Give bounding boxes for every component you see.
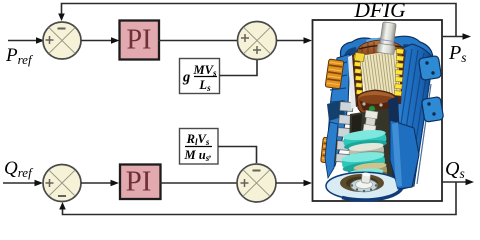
machine base plate <box>326 172 402 200</box>
svg-text:DFIG: DFIG <box>353 0 406 22</box>
machine base recess (dark) <box>340 174 384 192</box>
machine cut section white gap <box>348 53 361 109</box>
wire: S4 to DFIG <box>276 182 306 184</box>
machine lower shaft cone (white steps) <box>361 110 380 139</box>
wire: S3 to PI2 <box>81 182 113 184</box>
DFIG block frame <box>313 20 443 201</box>
machine right mount bracket lower <box>421 97 443 123</box>
wire: P_ref input <box>8 40 40 42</box>
wire: gain block to S4 top <box>218 147 257 164</box>
wire: S1 to PI1 <box>81 40 114 42</box>
gain block g·MVs/Ls <box>180 59 220 94</box>
DFIG machine cutaway picture <box>321 21 444 200</box>
wire: Q_ref input <box>3 182 38 184</box>
machine top end-bell (blue cap) <box>340 36 433 67</box>
machine inner cavity behind discs <box>348 108 396 184</box>
machine right casing fins <box>394 49 432 184</box>
machine yellow patch top-left <box>354 52 364 61</box>
PI controller (Q loop) <box>120 165 161 200</box>
machine left housing cut edge <box>327 54 350 170</box>
svg-text:PI: PI <box>126 166 152 198</box>
machine rotor bottom copper ring <box>357 90 396 117</box>
gain block Rl·Vs/(M·us) <box>180 129 219 165</box>
machine hub shaft end <box>361 172 371 183</box>
svg-text:g: g <box>182 70 190 86</box>
machine yellow slot wedges right column <box>394 49 403 96</box>
svg-text:PI: PI <box>127 24 152 55</box>
summing junction S3 (Q error) <box>43 165 81 202</box>
machine right housing (blue finned casing) <box>390 44 433 190</box>
machine right mount bracket upper <box>418 56 441 81</box>
wire: Ps output <box>442 36 465 38</box>
wire: bottom feedback from Qs output <box>63 182 457 215</box>
machine left lower casing edge <box>325 122 338 178</box>
machine slip-ring disc teal 2 <box>341 150 386 173</box>
machine spacer disc khaki <box>353 161 387 180</box>
machine rotor top copper end-winding <box>357 40 403 66</box>
machine bottom-right blue skirt <box>390 120 419 189</box>
PI controller (P loop) <box>120 21 160 60</box>
machine yellow slot wedges left column <box>354 55 363 102</box>
wire: S2 to DFIG <box>277 40 307 42</box>
summing junction S4 (subtracts) <box>237 164 276 202</box>
machine slip-ring disc teal 1 <box>343 128 388 151</box>
machine rotor bottom green dot <box>369 106 376 113</box>
machine laminated core (cream, striped) <box>359 50 401 100</box>
wire: PI2 to S4 <box>160 182 238 184</box>
machine stator dark slot region <box>352 50 364 107</box>
machine shaft (top stub) <box>377 21 399 54</box>
wire: PI1 to S2 <box>158 40 238 42</box>
wire: Qs output <box>442 181 468 183</box>
machine left terminal block (orange, lower) <box>321 137 338 163</box>
machine slip-ring disc teal 3 <box>345 167 385 188</box>
summing junction S1 (P error) <box>43 22 81 59</box>
machine left terminal stack (orange, upper) <box>325 59 344 89</box>
machine hub bearing <box>351 179 378 192</box>
machine spacer disc gray 1 <box>348 142 384 161</box>
wire: gain block to S2 bottom <box>220 60 258 76</box>
summing junction S2 (adds g·MVs/Ls) <box>238 22 277 60</box>
wire: top feedback from Ps output <box>62 4 457 37</box>
